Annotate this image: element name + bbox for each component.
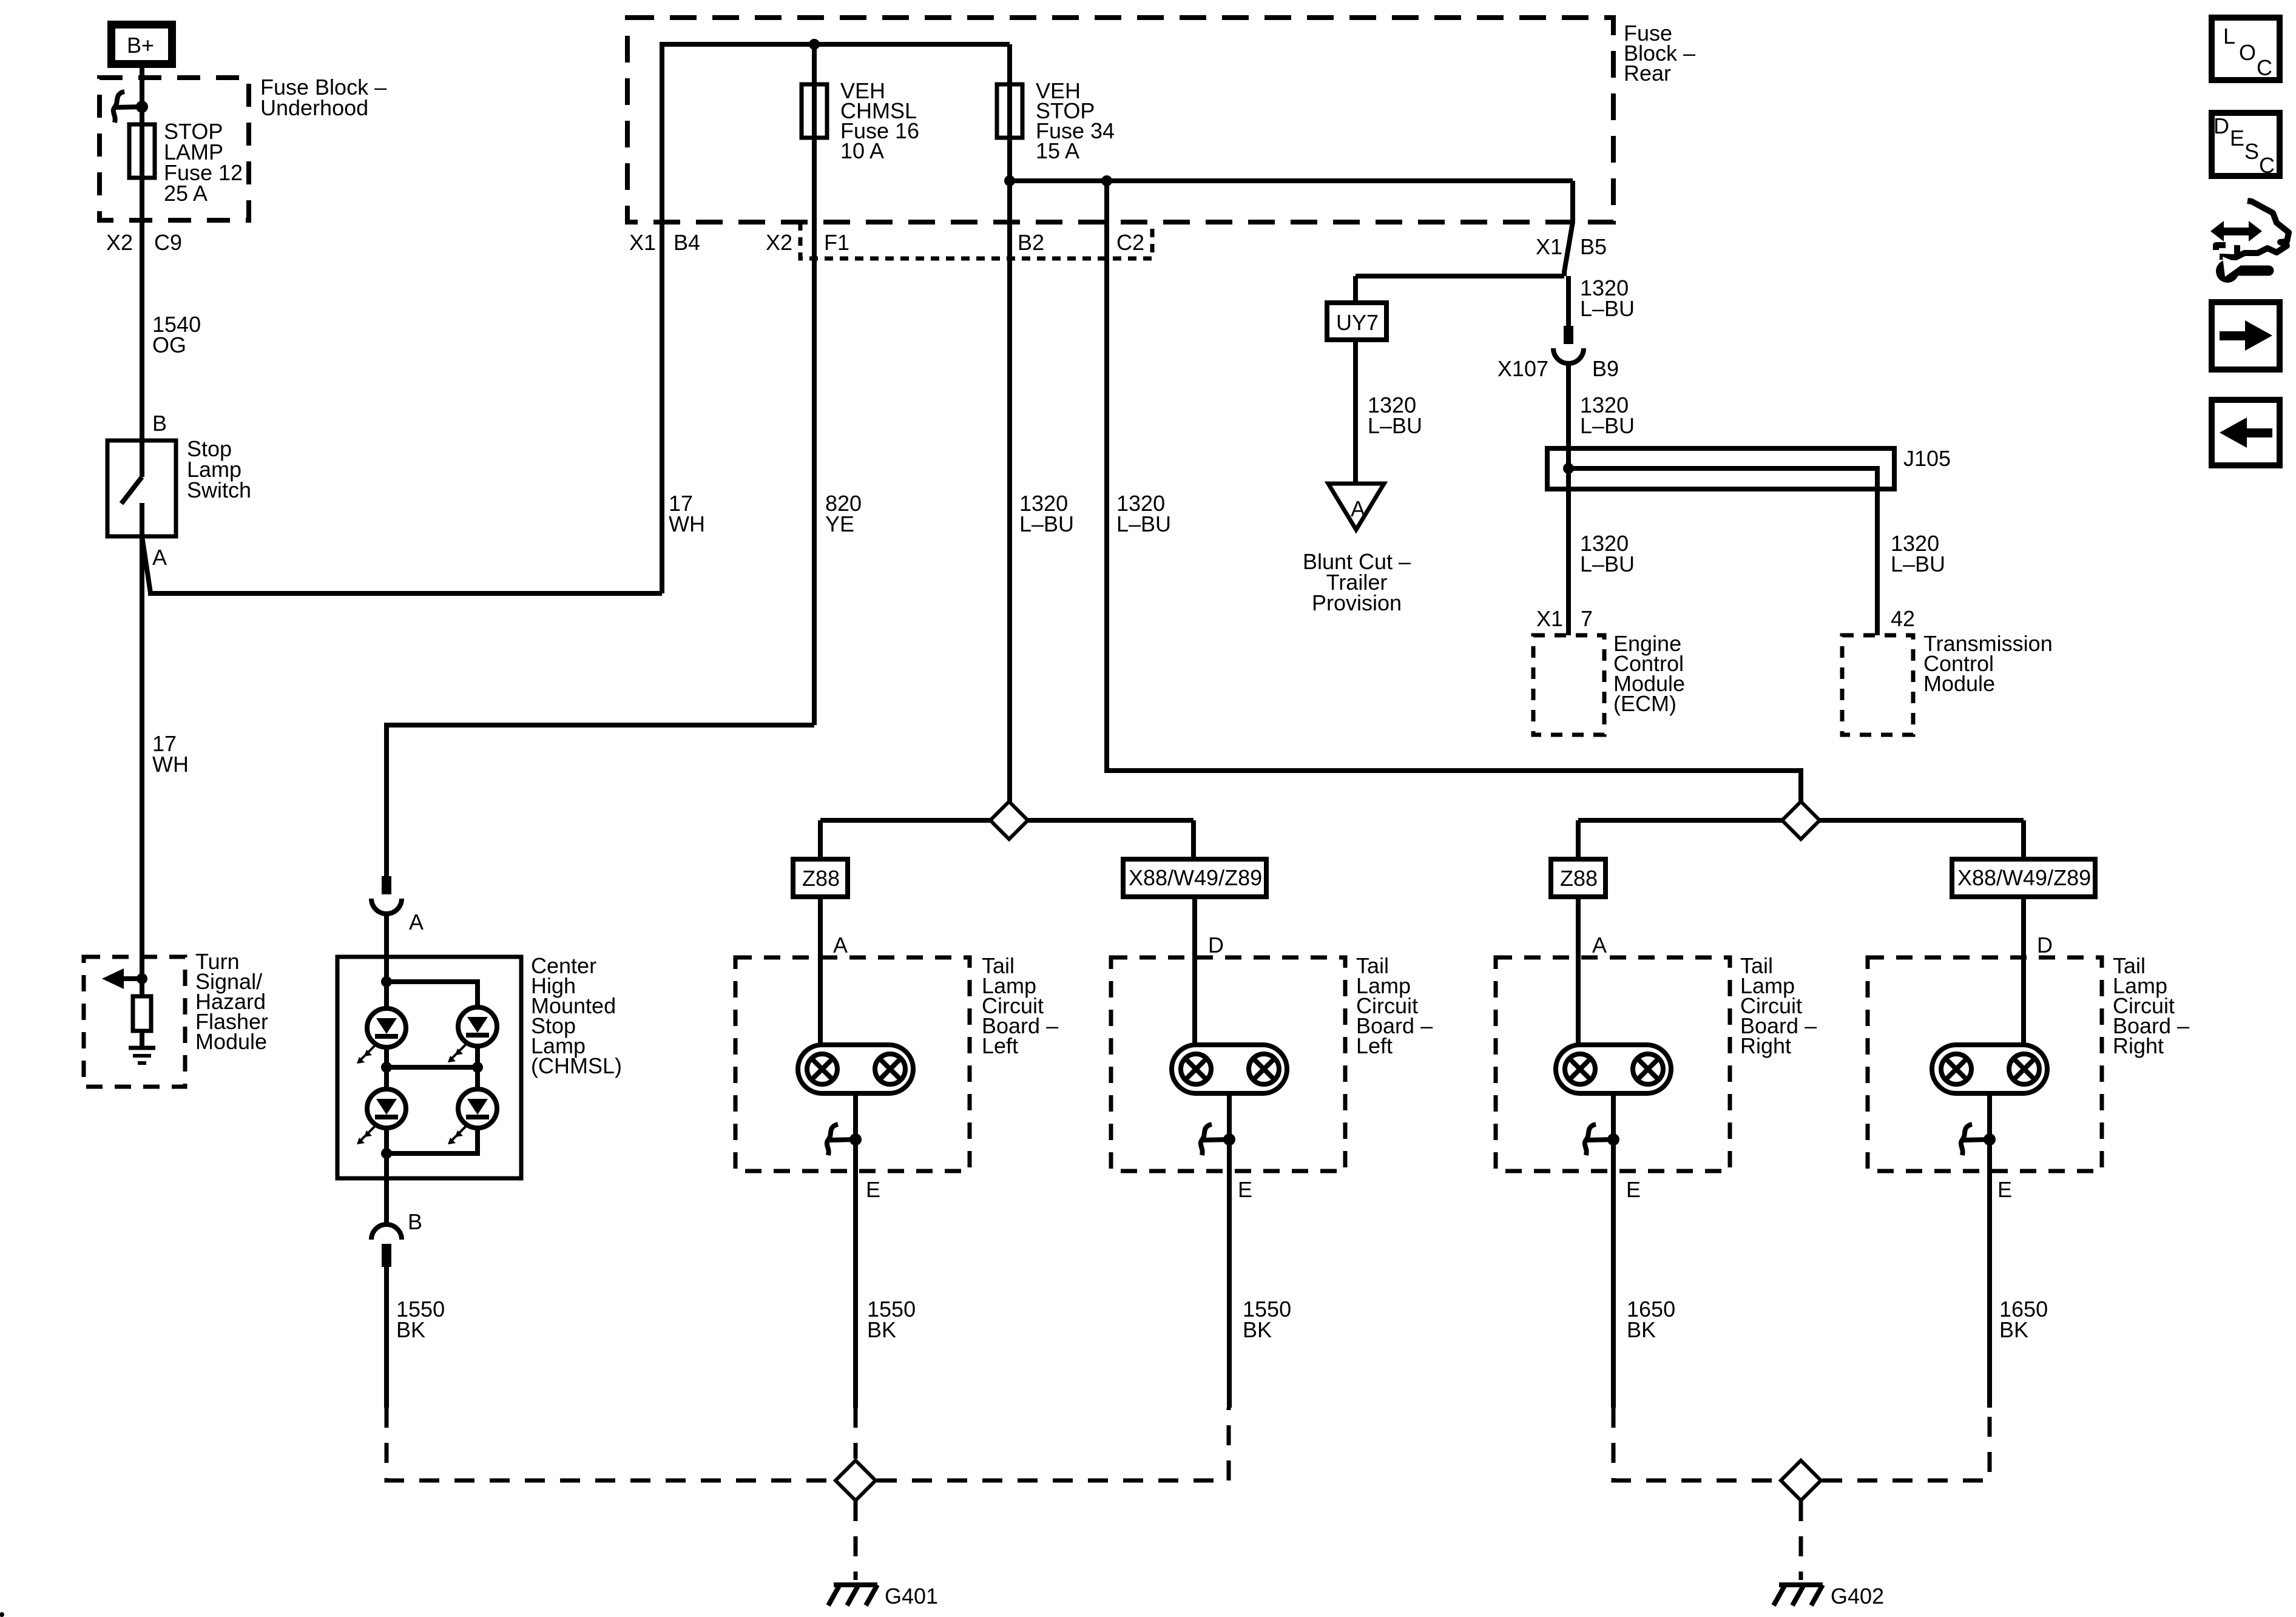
svg-text:10 A: 10 A bbox=[840, 138, 884, 163]
svg-text:E: E bbox=[866, 1177, 880, 1202]
svg-text:C2: C2 bbox=[1116, 230, 1144, 255]
svg-text:C: C bbox=[2257, 55, 2272, 80]
svg-text:Z88: Z88 bbox=[1560, 866, 1598, 891]
svg-text:X88/W49/Z89: X88/W49/Z89 bbox=[1957, 865, 2091, 890]
svg-text:B9: B9 bbox=[1592, 356, 1619, 381]
svg-text:15 A: 15 A bbox=[1036, 138, 1079, 163]
svg-text:Switch: Switch bbox=[187, 478, 251, 502]
svg-text:E: E bbox=[1626, 1177, 1641, 1202]
svg-text:L–BU: L–BU bbox=[1368, 413, 1422, 438]
svg-text:E: E bbox=[2230, 126, 2244, 150]
svg-text:BK: BK bbox=[396, 1317, 425, 1342]
svg-text:Provision: Provision bbox=[1312, 590, 1402, 615]
svg-text:Right: Right bbox=[2113, 1033, 2164, 1058]
svg-text:X2: X2 bbox=[766, 230, 792, 255]
svg-text:Right: Right bbox=[1740, 1033, 1791, 1058]
svg-text:O: O bbox=[2239, 40, 2256, 65]
svg-text:WH: WH bbox=[669, 511, 705, 536]
svg-text:WH: WH bbox=[152, 752, 189, 777]
svg-text:Left: Left bbox=[1356, 1033, 1393, 1058]
svg-text:B: B bbox=[408, 1209, 422, 1234]
svg-text:L–BU: L–BU bbox=[1116, 511, 1171, 536]
svg-text:J105: J105 bbox=[1903, 446, 1951, 471]
svg-text:(CHMSL): (CHMSL) bbox=[531, 1053, 622, 1078]
svg-text:Z88: Z88 bbox=[802, 866, 840, 891]
svg-text:X88/W49/Z89: X88/W49/Z89 bbox=[1129, 865, 1262, 890]
svg-text:A: A bbox=[833, 933, 848, 957]
svg-text:25 A: 25 A bbox=[164, 181, 208, 206]
svg-text:UY7: UY7 bbox=[1336, 310, 1379, 335]
svg-text:YE: YE bbox=[825, 511, 854, 536]
svg-text:L–BU: L–BU bbox=[1580, 413, 1635, 438]
svg-text:X107: X107 bbox=[1497, 356, 1548, 381]
svg-text:BK: BK bbox=[1243, 1317, 1272, 1342]
svg-text:A: A bbox=[1592, 933, 1607, 957]
svg-text:X1: X1 bbox=[629, 230, 656, 255]
svg-text:C9: C9 bbox=[154, 230, 182, 255]
svg-text:E: E bbox=[1997, 1177, 2012, 1202]
svg-text:X2: X2 bbox=[106, 230, 133, 255]
svg-text:C: C bbox=[2259, 153, 2275, 178]
svg-text:BK: BK bbox=[867, 1317, 896, 1342]
svg-text:E: E bbox=[1238, 1177, 1252, 1202]
svg-text:(ECM): (ECM) bbox=[1613, 691, 1676, 716]
svg-text:B+: B+ bbox=[127, 33, 154, 58]
svg-text:7: 7 bbox=[1581, 606, 1593, 631]
svg-text:OG: OG bbox=[152, 333, 186, 357]
svg-text:A: A bbox=[1351, 496, 1365, 521]
svg-text:Rear: Rear bbox=[1624, 61, 1671, 86]
svg-text:B: B bbox=[152, 411, 167, 436]
svg-text:D: D bbox=[2213, 113, 2229, 138]
svg-text:Underhood: Underhood bbox=[260, 95, 368, 120]
svg-text:G401: G401 bbox=[885, 1584, 938, 1609]
svg-text:B4: B4 bbox=[674, 230, 700, 255]
svg-text:Module: Module bbox=[1923, 671, 1995, 696]
svg-text:X1: X1 bbox=[1536, 606, 1563, 631]
svg-text:S: S bbox=[2244, 139, 2259, 164]
svg-text:L–BU: L–BU bbox=[1019, 511, 1074, 536]
svg-text:X1: X1 bbox=[1536, 234, 1562, 259]
svg-text:Module: Module bbox=[195, 1029, 267, 1054]
svg-text:G402: G402 bbox=[1831, 1584, 1884, 1609]
svg-text:BK: BK bbox=[1999, 1317, 2028, 1342]
svg-text:A: A bbox=[409, 910, 424, 934]
svg-text:L–BU: L–BU bbox=[1580, 296, 1635, 321]
svg-text:Left: Left bbox=[982, 1033, 1018, 1058]
svg-text:L: L bbox=[2223, 24, 2235, 49]
svg-text:D: D bbox=[2037, 933, 2053, 957]
svg-text:D: D bbox=[1208, 933, 1224, 957]
svg-text:BK: BK bbox=[1627, 1317, 1656, 1342]
svg-text:A: A bbox=[152, 545, 167, 570]
svg-text:L–BU: L–BU bbox=[1891, 552, 1945, 576]
svg-text:L–BU: L–BU bbox=[1580, 552, 1635, 576]
svg-text:42: 42 bbox=[1891, 606, 1915, 631]
svg-text:B5: B5 bbox=[1580, 234, 1607, 259]
svg-text:F1: F1 bbox=[824, 230, 849, 255]
svg-text:B2: B2 bbox=[1018, 230, 1044, 255]
